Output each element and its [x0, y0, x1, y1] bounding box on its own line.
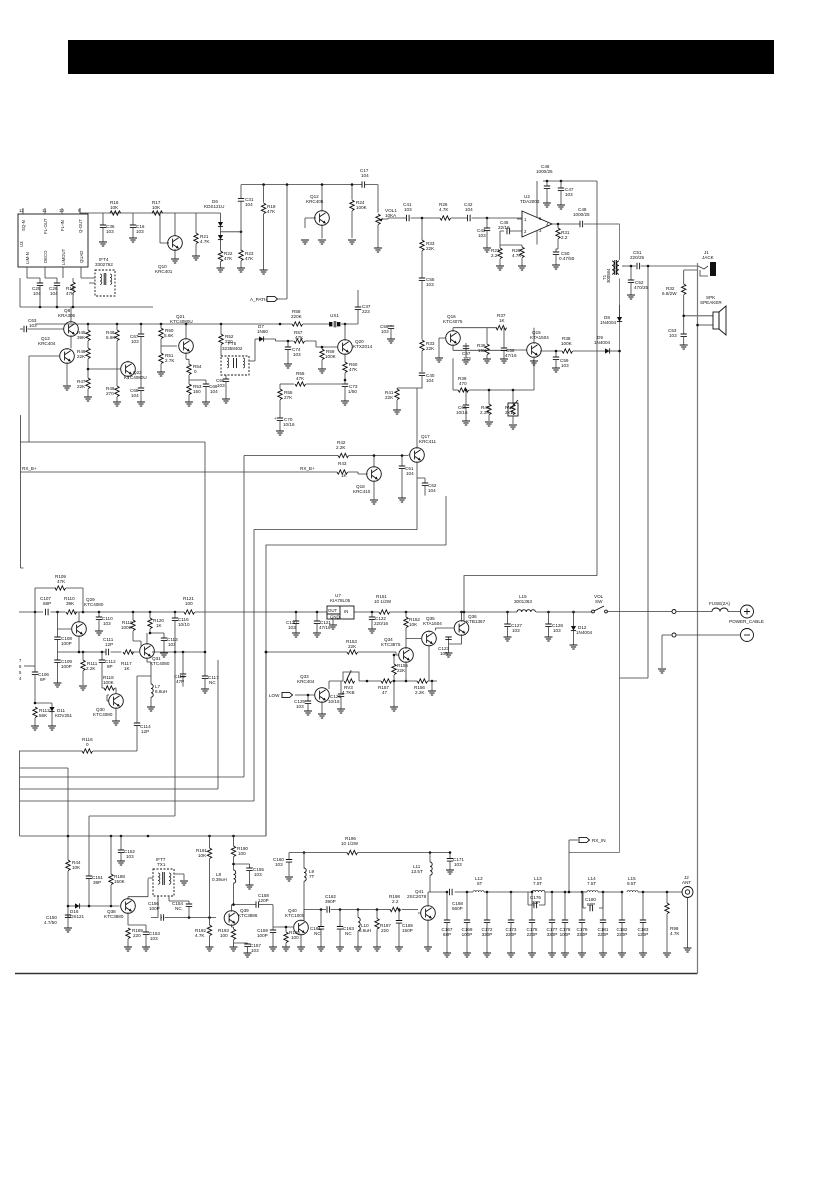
capacitor C37 — [355, 290, 371, 324]
svg-text:104: 104 — [33, 291, 41, 296]
capacitor C25 — [27, 274, 43, 307]
svg-text:47K: 47K — [66, 291, 75, 296]
svg-text:6.8uH: 6.8uH — [155, 689, 167, 694]
svg-text:220K: 220K — [291, 314, 303, 319]
svg-text:100K: 100K — [356, 205, 368, 210]
svg-text:3001363: 3001363 — [514, 599, 532, 604]
capacitor C154 — [169, 896, 192, 918]
svg-text:100K: 100K — [103, 680, 115, 685]
capacitor C161 — [310, 910, 325, 952]
svg-text:10K: 10K — [72, 865, 81, 870]
svg-text:103: 103 — [553, 628, 561, 633]
capacitor C61 — [398, 454, 414, 502]
resistor R19 — [260, 185, 277, 274]
svg-text:1N60: 1N60 — [257, 329, 268, 334]
wire TX rail2 — [289, 852, 450, 854]
resistor R53 — [185, 384, 202, 406]
resistor R43 — [337, 461, 348, 478]
wire top audio rail — [241, 184, 361, 186]
node LOW — [269, 692, 293, 698]
svg-text:KTA1504: KTA1504 — [530, 335, 549, 340]
svg-text:NC: NC — [209, 680, 216, 685]
resistor R60 — [343, 362, 358, 384]
diode D7 — [249, 324, 276, 361]
svg-text:LOW: LOW — [269, 693, 280, 698]
transistor Q31 — [139, 633, 170, 666]
capacitor C70 — [274, 413, 295, 435]
capacitor C113 — [149, 632, 178, 657]
resistor R28 — [500, 245, 526, 270]
capacitor C50 — [552, 249, 575, 269]
wire rail D8 line — [619, 224, 621, 853]
capacitor C153 — [128, 925, 160, 951]
svg-text:5T: 5T — [477, 881, 483, 886]
svg-text:220: 220 — [133, 933, 141, 938]
svg-text:2.7K: 2.7K — [165, 358, 175, 363]
svg-text:RX_B+: RX_B+ — [300, 466, 315, 471]
capacitor C57 — [462, 343, 471, 364]
resistor R56 — [280, 371, 345, 386]
svg-text:103: 103 — [512, 628, 520, 633]
resistor R113 — [31, 707, 50, 730]
svg-text:KTC4080: KTC4080 — [84, 602, 104, 607]
svg-text:4.7K: 4.7K — [195, 933, 205, 938]
resistor R42 — [336, 440, 349, 458]
svg-text:3302762: 3302762 — [95, 262, 113, 267]
capacitor C69 — [189, 380, 218, 406]
resistor R48 — [106, 324, 119, 348]
resistor R193 — [218, 927, 238, 951]
svg-text:4.7K: 4.7K — [439, 207, 449, 212]
svg-text:39K: 39K — [77, 335, 86, 340]
svg-text:1K: 1K — [341, 473, 348, 478]
wire TX supply rail — [20, 652, 267, 836]
capacitor C46 — [536, 164, 553, 207]
connector POWER_CABLE plus — [729, 605, 764, 624]
svg-text:KDS121U: KDS121U — [204, 204, 224, 209]
resistor R49 — [106, 348, 121, 406]
svg-text:2.2K: 2.2K — [415, 690, 425, 695]
svg-text:47: 47 — [382, 690, 388, 695]
transistor Q41 — [407, 889, 435, 951]
svg-text:KTB1367: KTB1367 — [466, 619, 486, 624]
svg-text:220/25: 220/25 — [630, 255, 644, 260]
resistor R21 — [192, 213, 210, 260]
svg-text:220P: 220P — [506, 932, 517, 937]
svg-text:103: 103 — [131, 339, 139, 344]
svg-text:FL-OUT: FL-OUT — [43, 218, 48, 234]
capacitor C150 — [44, 905, 72, 932]
resistor R152 — [404, 612, 421, 649]
svg-text:330P: 330P — [482, 932, 493, 937]
svg-text:120P: 120P — [258, 898, 269, 903]
capacitor C180 bridging — [583, 892, 603, 911]
svg-text:1N4004: 1N4004 — [600, 320, 617, 325]
diode D16 — [67, 903, 120, 919]
svg-text:100: 100 — [291, 935, 299, 940]
svg-text:12: 12 — [19, 208, 24, 213]
resistor R116 — [19, 737, 137, 753]
svg-text:QUAD: QUAD — [79, 251, 84, 263]
capacitor C52 — [627, 265, 648, 299]
resistor R52 — [219, 324, 234, 356]
resistor R58 — [291, 309, 303, 326]
svg-text:120P: 120P — [638, 932, 649, 937]
svg-text:NC: NC — [345, 931, 352, 936]
svg-text:KRC410: KRC410 — [353, 489, 371, 494]
capacitor C56 — [380, 324, 395, 343]
capacitor C128 — [545, 612, 564, 641]
svg-text:U3: U3 — [19, 241, 24, 247]
svg-text:10/16: 10/16 — [456, 410, 468, 415]
resistor R192 — [195, 918, 214, 952]
wire staircase bus 1 — [20, 768, 69, 906]
connector POWER_CABLE minus — [658, 629, 754, 674]
resistor R196 — [341, 836, 359, 855]
transistor Q22 — [87, 361, 147, 380]
svg-text:47K: 47K — [245, 256, 254, 261]
svg-text:10/10: 10/10 — [178, 622, 190, 627]
resistor R44 — [66, 860, 81, 871]
capacitor C111 — [103, 637, 114, 655]
svg-text:KRC404: KRC404 — [297, 679, 315, 684]
capacitor C158 — [232, 893, 294, 927]
svg-text:1K: 1K — [156, 623, 163, 628]
wire supply top — [543, 180, 597, 182]
svg-text:KTC4080: KTC4080 — [93, 712, 113, 717]
speaker SPK — [682, 263, 726, 973]
svg-text:10K: 10K — [409, 622, 418, 627]
svg-text:103: 103 — [251, 948, 259, 953]
transistor Q35 — [406, 616, 442, 681]
capacitor C16 — [129, 213, 145, 242]
capacitor C74 — [284, 340, 301, 368]
node A_PATH — [250, 185, 287, 302]
transistor Q29 — [58, 597, 104, 652]
svg-text:12P: 12P — [141, 729, 149, 734]
capacitor C62 — [417, 478, 437, 496]
inductor L13 — [532, 876, 545, 892]
svg-text:47/16: 47/16 — [319, 625, 331, 630]
capacitor C172 — [482, 892, 493, 957]
wire supply joggle — [464, 576, 597, 621]
IC U3 demodulator — [18, 208, 88, 274]
svg-text:10KA: 10KA — [385, 213, 397, 218]
capacitor C43 — [477, 218, 491, 252]
capacitor C151 — [86, 875, 104, 885]
svg-text:9.5T: 9.5T — [627, 881, 636, 886]
svg-text:103: 103 — [217, 383, 225, 388]
capacitor C67 — [130, 324, 144, 349]
resistor R17 — [152, 200, 163, 215]
regulator U7 KIA78L05 — [327, 593, 354, 629]
svg-text:KTC4080: KTC4080 — [150, 661, 170, 666]
svg-text:22K: 22K — [77, 384, 86, 389]
svg-text:47K: 47K — [267, 209, 276, 214]
svg-text:100P: 100P — [462, 932, 473, 937]
resistor R198 — [389, 894, 401, 912]
resistor R40 — [480, 389, 493, 426]
svg-text:103: 103 — [565, 192, 573, 197]
connector J1 JACK — [698, 250, 716, 276]
resistor R156b — [414, 679, 428, 695]
svg-text:GND: GND — [330, 615, 340, 620]
diode D12 — [570, 612, 593, 649]
svg-text:IN: IN — [344, 609, 348, 614]
capacitor C176 bridging — [528, 892, 545, 908]
svg-text:103: 103 — [296, 704, 304, 709]
svg-text:7T: 7T — [309, 874, 315, 879]
capacitor C183 — [638, 892, 649, 957]
ground under R155 — [390, 681, 398, 711]
svg-text:100: 100 — [238, 851, 246, 856]
svg-text:104: 104 — [50, 291, 58, 296]
resistor R39 — [453, 360, 534, 392]
svg-text:TDA2003: TDA2003 — [520, 199, 540, 204]
svg-text:220P: 220P — [598, 932, 609, 937]
inductor L10 — [354, 910, 371, 952]
svg-text:104: 104 — [245, 202, 253, 207]
capacitor C47 — [557, 181, 574, 209]
wire rail right supply — [596, 181, 598, 576]
svg-text:10/16: 10/16 — [328, 699, 340, 704]
fuse FUSE(2A) — [676, 601, 740, 612]
potentiometer VOL1 — [374, 208, 397, 252]
resistor R54 — [187, 364, 202, 384]
svg-text:4.7/50: 4.7/50 — [44, 920, 57, 925]
capacitor C109 — [54, 652, 73, 687]
capacitor C168 — [450, 889, 464, 911]
svg-text:103: 103 — [404, 207, 412, 212]
svg-text:NC: NC — [314, 931, 321, 936]
svg-text:10/16: 10/16 — [283, 422, 295, 427]
svg-text:100: 100 — [185, 601, 193, 606]
svg-text:100P: 100P — [149, 906, 160, 911]
capacitor C45 — [498, 220, 517, 245]
svg-text:100P: 100P — [61, 641, 72, 646]
svg-text:22K: 22K — [426, 246, 435, 251]
svg-text:2SC2078: 2SC2078 — [407, 894, 427, 899]
capacitor C116 — [172, 612, 190, 652]
inductor L11 — [411, 853, 432, 893]
svg-text:103: 103 — [275, 862, 283, 867]
capacitor C177 — [547, 892, 558, 957]
wire stub pins — [19, 658, 35, 681]
capacitor C152 — [117, 836, 135, 865]
resistor R151 — [374, 594, 392, 614]
svg-text:KDV251: KDV251 — [55, 713, 73, 718]
resistor R157 — [378, 679, 392, 695]
svg-text:1N4004: 1N4004 — [594, 340, 611, 345]
resistor R22 — [217, 251, 234, 272]
svg-text:100P: 100P — [61, 664, 72, 669]
svg-text:R43: R43 — [338, 461, 347, 466]
svg-text:4.7K: 4.7K — [200, 239, 210, 244]
capacitor C179 — [577, 892, 588, 957]
crystal UX1 — [329, 313, 340, 327]
capacitor C165 — [395, 910, 413, 952]
wire staircase bus 2 — [20, 776, 245, 778]
svg-text:RX_IN: RX_IN — [592, 838, 606, 843]
resistor R117 — [121, 650, 134, 671]
svg-text:150K: 150K — [114, 879, 126, 884]
capacitor C58 — [500, 328, 517, 363]
resistor R99 — [663, 892, 680, 957]
svg-text:1/50: 1/50 — [348, 389, 357, 394]
capacitor C171 — [446, 851, 464, 874]
resistor R121 — [183, 596, 195, 614]
svg-text:27K: 27K — [284, 395, 293, 400]
diode D9 — [594, 335, 611, 354]
resistor R36 — [477, 328, 491, 363]
svg-text:104: 104 — [426, 378, 434, 383]
resistor R45 — [77, 324, 90, 348]
wire IF rail — [35, 323, 358, 325]
svg-text:1N4004: 1N4004 — [576, 630, 593, 635]
svg-text:22K: 22K — [348, 644, 357, 649]
capacitor C156 — [148, 896, 216, 921]
svg-text:A_PATH: A_PATH — [250, 297, 267, 302]
svg-text:223: 223 — [362, 309, 370, 314]
svg-text:0: 0 — [194, 369, 197, 374]
svg-text:103: 103 — [103, 621, 111, 626]
title bar — [68, 40, 774, 74]
svg-text:103: 103 — [293, 352, 301, 357]
svg-text:104: 104 — [465, 207, 473, 212]
svg-text:103: 103 — [454, 862, 462, 867]
capacitor C110 — [95, 612, 113, 635]
svg-text:270: 270 — [106, 391, 114, 396]
svg-text:22/16: 22/16 — [498, 225, 510, 230]
transistor Q33 — [295, 674, 329, 718]
node RX_IN — [568, 837, 620, 893]
transistor Q40 — [285, 908, 308, 951]
resistor R16 — [110, 200, 121, 215]
inductor L15 — [514, 594, 535, 612]
resistor R197 — [373, 910, 391, 952]
wire driver output row — [304, 910, 418, 921]
svg-text:22K: 22K — [77, 354, 86, 359]
svg-text:12P: 12P — [105, 642, 113, 647]
wire audio line — [388, 217, 522, 219]
wire nested L1 — [254, 530, 417, 801]
svg-text:DECO: DECO — [43, 250, 48, 263]
resistor R51 — [157, 346, 175, 376]
svg-text:22K: 22K — [426, 346, 435, 351]
svg-text:15K: 15K — [478, 348, 487, 353]
svg-text:2.2: 2.2 — [561, 235, 568, 240]
svg-text:LIMOUT: LIMOUT — [61, 248, 66, 265]
svg-text:22K: 22K — [385, 395, 394, 400]
svg-text:KTC1005: KTC1005 — [285, 913, 305, 918]
svg-text:103: 103 — [669, 333, 677, 338]
diode D11 — [34, 702, 73, 730]
svg-text:103: 103 — [440, 651, 448, 656]
capacitor C53 — [668, 316, 688, 349]
inductor L15b — [627, 876, 638, 892]
capacitor C169 — [462, 892, 473, 957]
resistor R118 — [102, 675, 116, 693]
svg-text:TX1: TX1 — [157, 862, 166, 867]
svg-text:220P: 220P — [527, 932, 538, 937]
svg-text:10 1/2W: 10 1/2W — [341, 841, 359, 846]
svg-text:300584: 300584 — [606, 268, 611, 283]
svg-text:47K: 47K — [296, 376, 305, 381]
capacitor C26 — [45, 274, 60, 307]
svg-text:UX1: UX1 — [330, 313, 339, 318]
wire staircase bus 3 — [20, 660, 219, 789]
capacitor C114 — [134, 676, 151, 751]
svg-text:470/25: 470/25 — [634, 285, 648, 290]
resistor R46 — [77, 348, 90, 368]
svg-text:POWER_CABLE: POWER_CABLE — [729, 619, 764, 624]
svg-text:SW: SW — [595, 599, 603, 604]
svg-text:47K: 47K — [295, 335, 304, 340]
resistor R32 — [662, 270, 698, 316]
wire nested L2 — [266, 545, 446, 836]
capacitor C127 — [504, 612, 523, 641]
svg-text:2.2: 2.2 — [491, 253, 498, 258]
svg-text:10K: 10K — [110, 205, 119, 210]
capacitor C122 — [368, 612, 388, 633]
svg-text:220: 220 — [381, 928, 389, 933]
svg-text:150P: 150P — [402, 928, 413, 933]
svg-text:6P: 6P — [40, 677, 46, 682]
svg-text:103: 103 — [126, 854, 134, 859]
svg-text:47K: 47K — [224, 256, 233, 261]
svg-text:47K: 47K — [57, 579, 66, 584]
resistor R55 — [278, 384, 293, 413]
transistor Q34 — [381, 637, 413, 681]
inductor L12 — [473, 876, 484, 892]
svg-text:104: 104 — [361, 173, 369, 178]
svg-text:JACK: JACK — [702, 255, 715, 260]
filter FT5 — [221, 341, 249, 375]
svg-text:6.8uH: 6.8uH — [359, 928, 371, 933]
capacitor C51 — [620, 250, 699, 678]
svg-text:100K: 100K — [325, 354, 337, 359]
wire audio drive row — [266, 652, 398, 655]
resistor R110 — [64, 596, 77, 614]
svg-text:KTC4080U: KTC4080U — [170, 319, 193, 324]
wire D9 to rail — [610, 350, 620, 352]
transistor Q8 KRA305 — [58, 307, 78, 348]
svg-text:150: 150 — [193, 389, 201, 394]
diode D6 KDS121U — [204, 199, 224, 251]
capacitor C162 — [325, 894, 336, 913]
wire audio low row — [329, 680, 437, 682]
resistor R153 — [346, 639, 358, 654]
resistor R33 — [420, 218, 435, 278]
svg-text:LIM-N: LIM-N — [25, 252, 30, 264]
svg-text:68P: 68P — [43, 601, 51, 606]
svg-text:103: 103 — [106, 229, 114, 234]
capacitor C181 — [598, 892, 609, 957]
resistor R26 — [439, 202, 451, 220]
resistor R190 — [231, 836, 248, 870]
IF transformer IFT4 — [81, 257, 115, 296]
svg-text:4.7K: 4.7K — [670, 931, 680, 936]
svg-text:1K: 1K — [499, 318, 506, 323]
wire squelch verticals — [452, 358, 454, 390]
svg-text:104: 104 — [131, 393, 139, 398]
svg-text:39K: 39K — [66, 601, 75, 606]
svg-text:104: 104 — [428, 488, 436, 493]
wire LPF chain — [428, 891, 682, 893]
resistor R155 — [392, 654, 409, 681]
svg-text:KTC3880: KTC3880 — [104, 914, 124, 919]
svg-text:SQ-N: SQ-N — [21, 220, 26, 231]
